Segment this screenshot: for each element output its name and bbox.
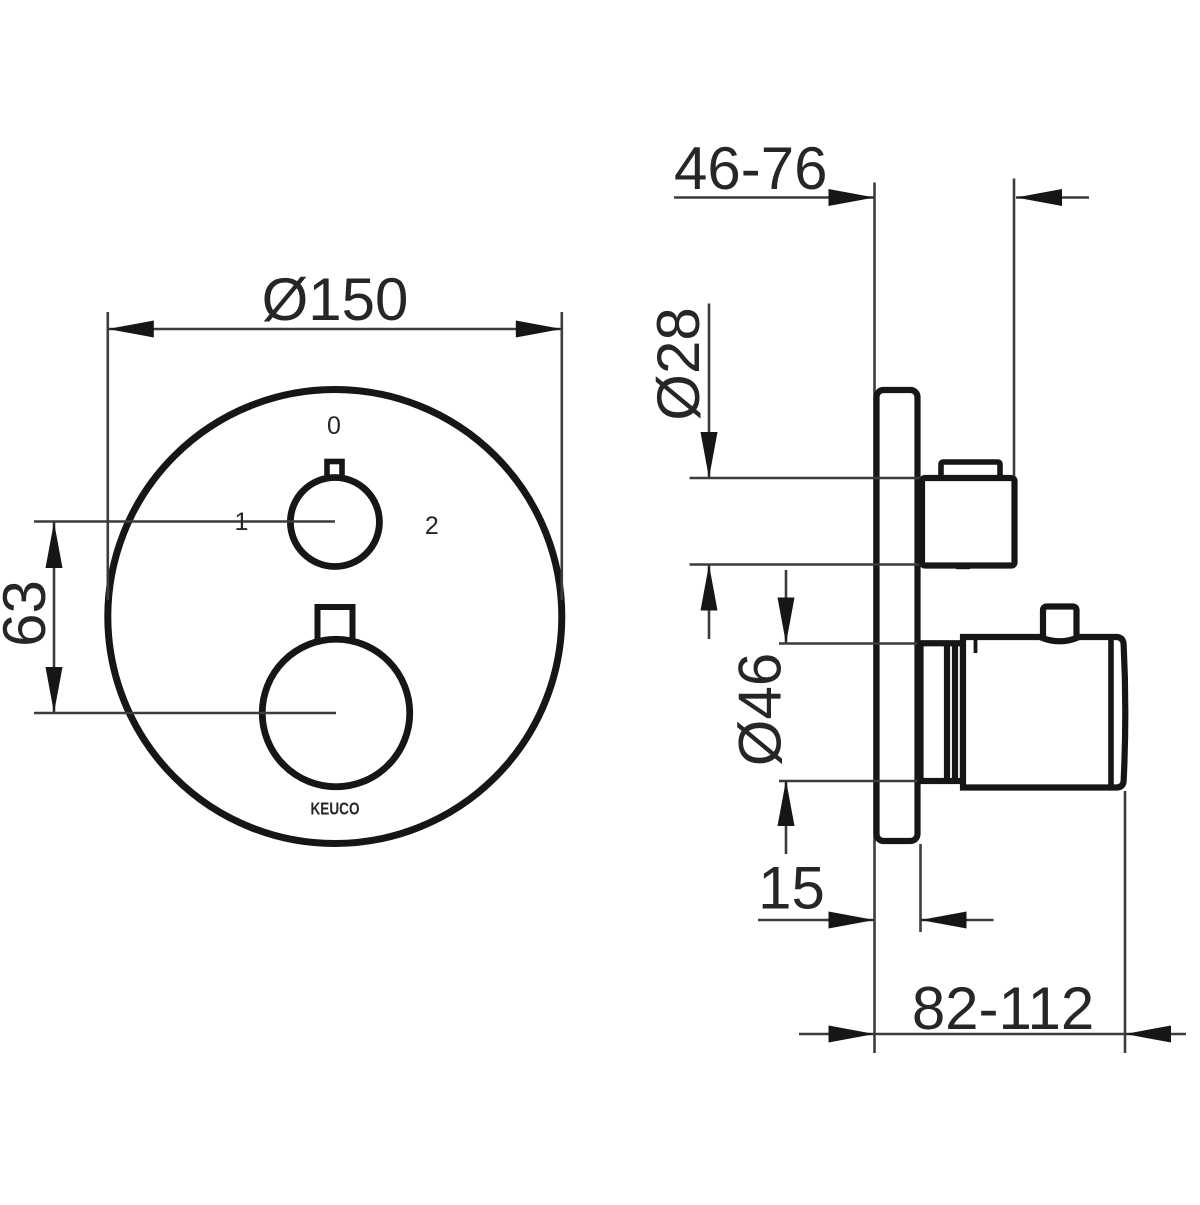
svg-text:82-112: 82-112 <box>912 975 1094 1042</box>
side view: Ø46 reference line bottom <box>779 780 925 783</box>
side view: Ø28 reference line bottom <box>690 563 924 566</box>
dimension 82-112: dimension line with arrows <box>799 1033 875 1036</box>
svg-text:0: 0 <box>327 412 341 440</box>
side view: Ø46 reference line top <box>779 642 925 645</box>
dimension 15: extension line at plate face <box>919 844 922 932</box>
dimension 82-112: extension line at knob 2 face <box>1124 791 1127 1053</box>
front view: face plate circle Ø150 <box>108 390 562 844</box>
svg-text:Ø150: Ø150 <box>262 266 409 333</box>
svg-text:Ø28: Ø28 <box>645 307 712 420</box>
svg-text:KEUCO: KEUCO <box>311 799 360 819</box>
side view: knob 2 inner edge line <box>1108 637 1114 788</box>
svg-text:15: 15 <box>758 855 825 922</box>
dimension Ø46: dimension line with arrows <box>785 570 788 644</box>
dimension 46-76: dimension line with arrows <box>674 196 875 199</box>
dimension 15: dimension line with arrows <box>758 919 875 922</box>
knob 2 circle (front view) <box>262 639 410 787</box>
side view: knob 2 stem <box>1043 607 1077 641</box>
dimension Ø150: extension lines <box>107 312 110 600</box>
svg-text:1: 1 <box>235 508 249 536</box>
dimension Ø28: dimension line with arrows <box>708 304 711 479</box>
side view: knob 2 index tick <box>974 640 978 653</box>
side view: knob 1 bottom index notch <box>956 565 970 569</box>
svg-text:63: 63 <box>0 580 58 647</box>
knob 1 circle (front view) <box>290 478 379 567</box>
svg-text:46-76: 46-76 <box>674 135 827 202</box>
side view: knob 2 body Ø46 <box>963 637 1125 788</box>
dimension Ø150: dimension line with arrows <box>108 328 562 331</box>
svg-text:2: 2 <box>425 512 439 540</box>
side view: wall line <box>873 183 876 1054</box>
knob 1 stem (front view) <box>327 462 342 490</box>
centerline through knob 2 <box>34 712 336 715</box>
centerline through knob 1 <box>34 520 335 523</box>
dimension 46-76: extension line at knob 1 face <box>1013 179 1016 477</box>
side view: knob 2 sleeve inner line a <box>944 643 950 781</box>
side view: Ø28 reference line top <box>690 477 924 480</box>
knob 2 stem (front view) <box>318 607 353 647</box>
dimension 63: dimension line with arrows <box>53 522 56 713</box>
side view: knob 1 cap band <box>941 462 1000 481</box>
svg-text:Ø46: Ø46 <box>727 653 794 766</box>
side view: wall plate <box>877 390 918 841</box>
side view: knob 1 body Ø28 <box>922 478 1015 566</box>
side view: knob 2 sleeve <box>921 643 964 781</box>
side view: knob 2 sleeve inner line b <box>952 643 958 781</box>
